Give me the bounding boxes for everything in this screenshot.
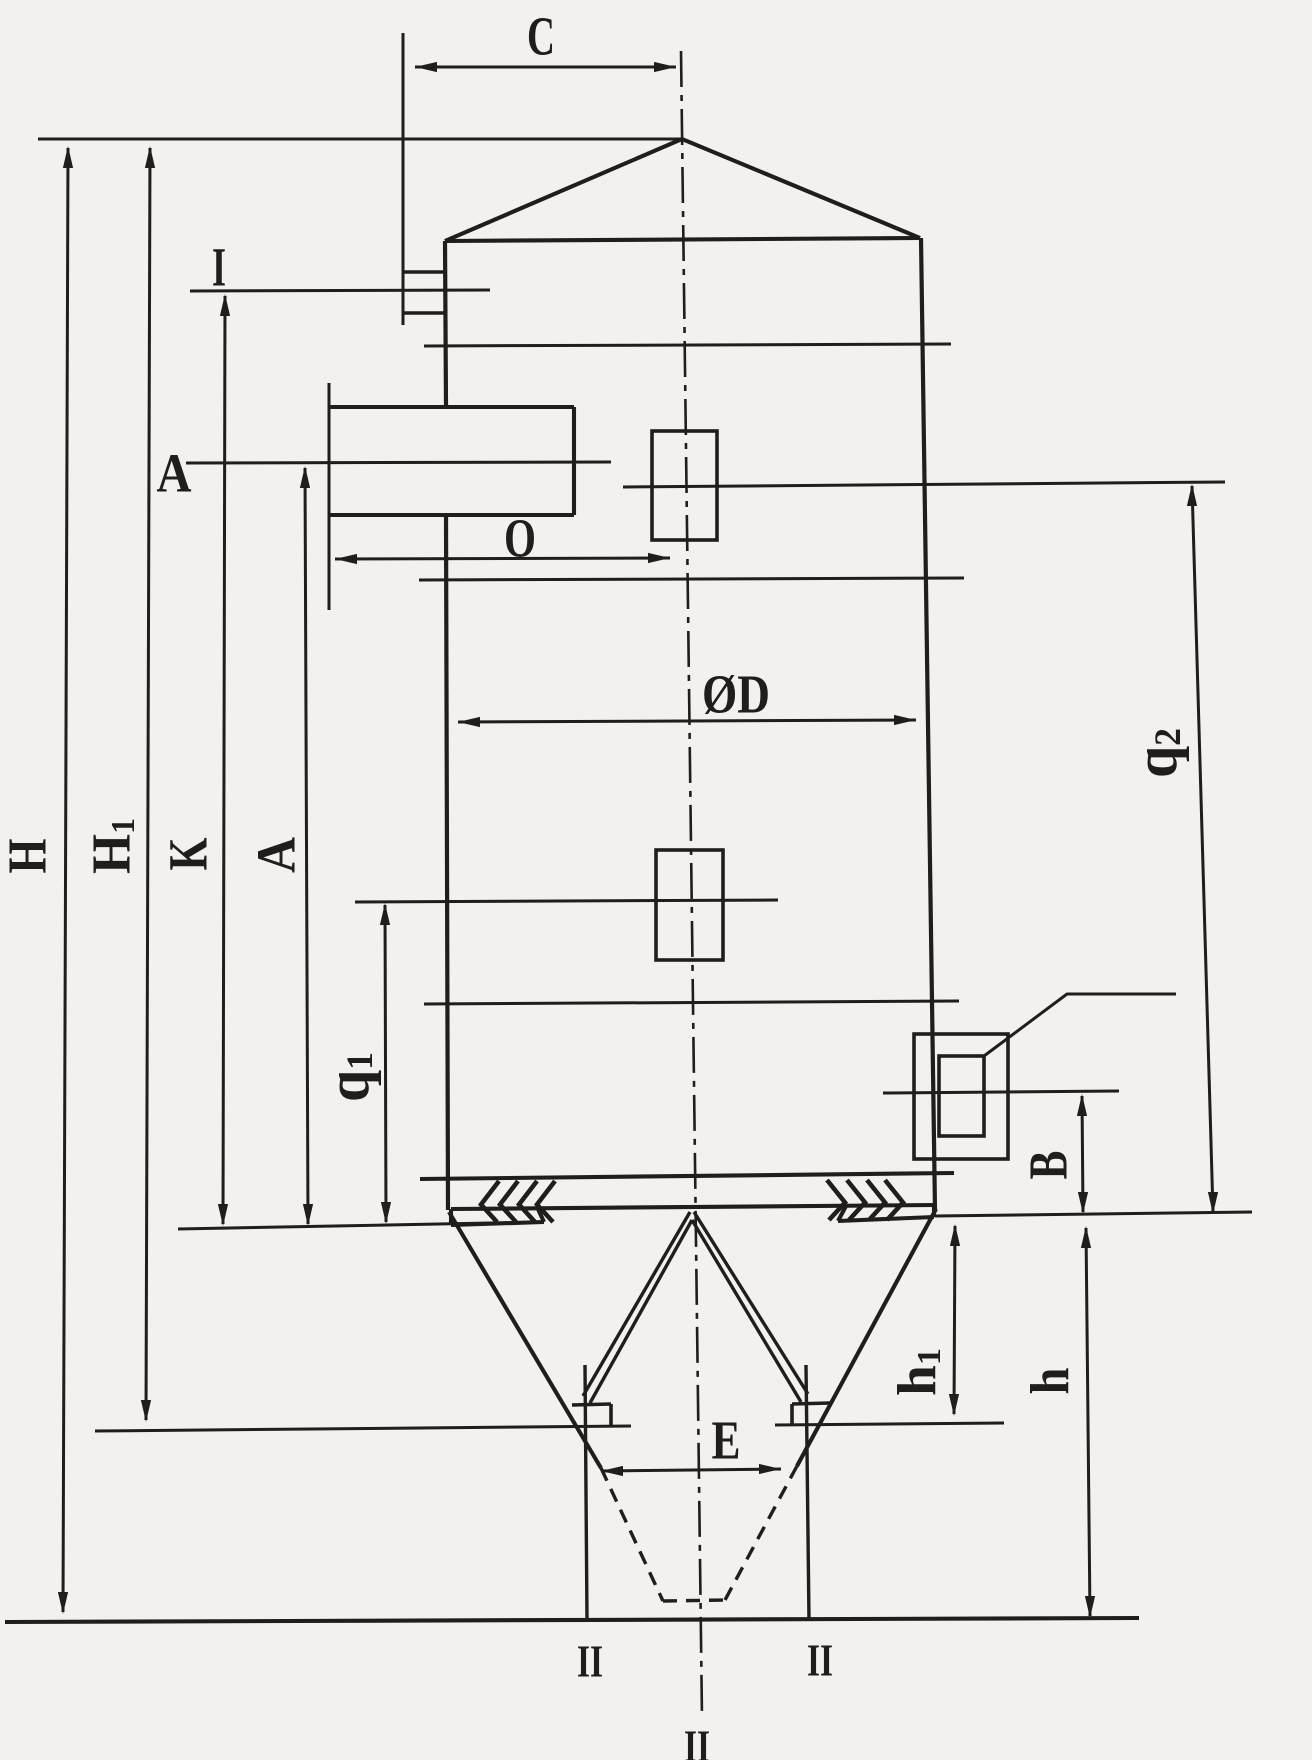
left chevron hatch 3 [519, 1181, 537, 1222]
right nozzle inner opening [939, 1056, 984, 1136]
dimension line A [305, 468, 308, 1224]
dimension line q1 [385, 905, 386, 1222]
vessel vertical centerline (dash-dot) [681, 51, 702, 1718]
right lower band left edge [838, 1206, 846, 1221]
left foot right edge [609, 1404, 613, 1426]
right chevron hatch 3 [867, 1180, 885, 1220]
inner cone right line 2 [692, 1220, 801, 1402]
left chevron hatch 2 [500, 1181, 518, 1222]
right lower band bottom [838, 1217, 934, 1221]
svg-text:C: C [527, 6, 555, 67]
shell top tangent line [445, 238, 920, 241]
shell right wall [921, 238, 935, 1210]
svg-text:K: K [158, 837, 219, 870]
ground line [5, 1618, 1139, 1622]
nozzle I stub top [403, 270, 446, 273]
dimension line OD [458, 720, 916, 722]
roof right slope [682, 139, 920, 238]
nozzle A right edge [572, 407, 576, 515]
left leg line [585, 1365, 587, 1620]
rear nozzle 2 centerline datum / q1 reference [355, 900, 778, 902]
nozzle I stub bottom [403, 311, 446, 314]
right lower band right edge [932, 1204, 936, 1217]
left lower band left edge [449, 1209, 453, 1225]
leader line to right nozzle [984, 994, 1176, 1056]
rear nozzle 2 (on centerline) [656, 850, 723, 960]
svg-text:I: I [212, 237, 226, 298]
support ring top line [420, 1173, 954, 1179]
inner cone left line 2 [590, 1220, 692, 1403]
left foot top [572, 1404, 611, 1405]
nozzle A bottom [330, 513, 574, 517]
dimension line h1 [954, 1226, 955, 1414]
svg-text:H: H [0, 839, 58, 874]
hopper left slope (dashed continuation) [601, 1468, 663, 1601]
left lower band bottom [451, 1222, 544, 1225]
rear nozzle 1 (on centerline) [652, 431, 717, 540]
nozzle A top [330, 405, 574, 409]
top datum line (H/H1 reference) [38, 138, 682, 141]
svg-text:II: II [577, 1636, 603, 1687]
nozzle I centerline datum [190, 290, 490, 291]
right foot top [792, 1403, 830, 1404]
nozzle I flange face / C extension line [402, 33, 405, 325]
svg-text:O: O [504, 508, 536, 569]
right nozzle centerline datum [883, 1091, 1119, 1093]
svg-text:E: E [712, 1410, 741, 1471]
right chevron hatch 1 [827, 1180, 845, 1220]
dimension line E [601, 1469, 781, 1471]
hopper left slope (solid) [449, 1212, 601, 1468]
dimension line H1 [146, 148, 150, 1420]
svg-text:II: II [807, 1635, 833, 1686]
left lower band right edge [538, 1209, 544, 1222]
feet datum line right segment [775, 1423, 1004, 1425]
dimension line q2 [1192, 486, 1213, 1212]
dimension line H [63, 148, 68, 1612]
dimension line C [415, 66, 676, 69]
hopper dashed bottom [663, 1600, 725, 1601]
left chevron hatch 4 [537, 1181, 555, 1222]
svg-text:h: h [1020, 1368, 1081, 1395]
svg-text:II: II [684, 1721, 710, 1760]
shell left wall upper [445, 241, 446, 407]
svg-text:ØD: ØD [702, 664, 770, 725]
rear nozzle 1 centerline datum / q2 reference [623, 482, 1225, 487]
dimension line K [223, 296, 225, 1224]
left chevron hatch 1 [481, 1181, 499, 1222]
nozzle A flange extension line [328, 383, 331, 610]
right leg line [806, 1365, 809, 1620]
hopper top extension line right [935, 1212, 1252, 1216]
nozzle A centerline datum [186, 462, 611, 463]
dimension line B [1082, 1096, 1083, 1212]
svg-text:B: B [1018, 1151, 1079, 1180]
weld seam line 3 [424, 1001, 959, 1004]
weld seam line 2 [419, 578, 964, 580]
right chevron hatch 2 [847, 1180, 865, 1220]
right nozzle outer flange [914, 1034, 1008, 1159]
hopper right slope (solid) [797, 1209, 936, 1466]
dimension line h [1086, 1228, 1090, 1616]
roof left slope [445, 139, 682, 241]
inner cone left line 1 [583, 1212, 690, 1396]
feet datum line left segment [95, 1426, 631, 1431]
shell left wall lower [446, 515, 448, 1210]
shell bottom / ring bottom line [451, 1205, 935, 1209]
hopper right slope (dashed continuation) [725, 1466, 797, 1600]
svg-text:A: A [157, 443, 192, 504]
right foot left edge [790, 1404, 794, 1425]
dimension line O [335, 558, 670, 559]
hopper top extension line left [178, 1222, 544, 1229]
weld seam line 1 [424, 344, 951, 346]
right chevron hatch 4 [885, 1180, 903, 1220]
inner cone right line 1 [694, 1212, 808, 1394]
svg-text:A: A [246, 837, 307, 873]
